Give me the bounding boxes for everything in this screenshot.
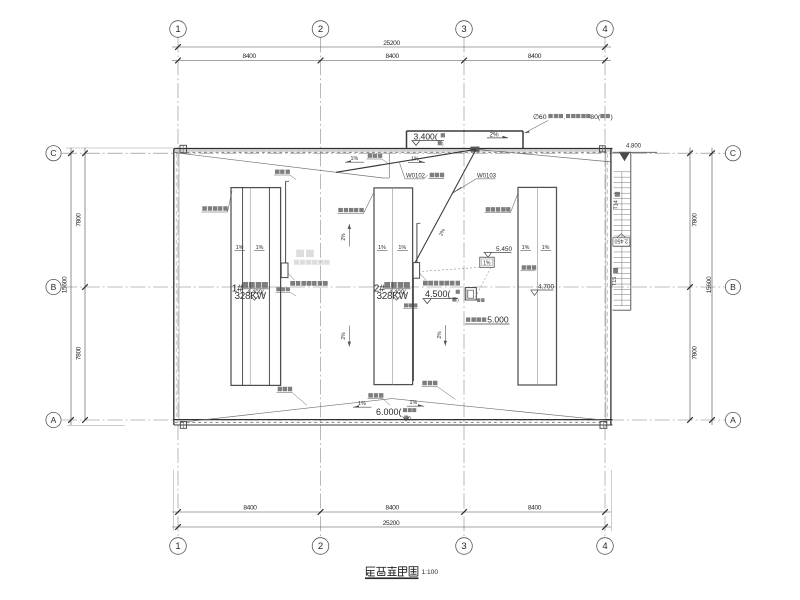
left wall bbox=[173, 149, 175, 425]
leader cabinet 1 bbox=[288, 273, 295, 280]
heat pump foundation strip 3 outline bbox=[518, 187, 557, 385]
svg-text:A: A bbox=[730, 415, 736, 425]
svg-text:C: C bbox=[730, 148, 736, 158]
top segment dimension line bbox=[172, 60, 611, 62]
svg-text:80(: 80( bbox=[590, 114, 601, 121]
grid bubble A left bbox=[46, 412, 61, 427]
riser pipe at strip 2 bbox=[416, 223, 418, 262]
tiny label main water line (strip2) bbox=[404, 303, 417, 307]
svg-text:1%: 1% bbox=[256, 245, 264, 251]
bottom ridge line right segment bbox=[392, 399, 609, 421]
right segment dimension line bbox=[689, 148, 691, 420]
parapet niche box (machine platform) bbox=[407, 130, 524, 132]
slope arrow 2% lower (between strips 2-3) bbox=[444, 325, 446, 346]
svg-text:B: B bbox=[51, 282, 57, 292]
svg-text:1%: 1% bbox=[410, 400, 418, 406]
label: control cabinet (strip2) bbox=[423, 281, 460, 286]
label: valley line bottom-right bbox=[423, 381, 438, 385]
svg-text:2%: 2% bbox=[437, 331, 443, 339]
svg-text:1%: 1% bbox=[378, 245, 386, 251]
grid bubble B right bbox=[725, 279, 740, 294]
svg-text:7800: 7800 bbox=[76, 346, 83, 360]
main water pipe below cabinet 2 bbox=[413, 278, 415, 381]
svg-text:3: 3 bbox=[461, 541, 466, 552]
main water pipe below cabinet 1 bbox=[280, 278, 282, 386]
grid bubble 3 bottom bbox=[456, 538, 473, 555]
svg-text:1%: 1% bbox=[236, 245, 244, 251]
bottom ridge line left segment bbox=[181, 399, 392, 423]
svg-text:7800: 7800 bbox=[76, 213, 83, 227]
svg-text:C: C bbox=[50, 148, 56, 158]
svg-text:6.000(: 6.000( bbox=[376, 407, 402, 417]
gray note: insulated accessible roof bbox=[294, 260, 329, 265]
svg-text:8400: 8400 bbox=[243, 53, 257, 60]
label pipe bottom level 5.000 bbox=[466, 317, 486, 322]
svg-text:8400: 8400 bbox=[243, 505, 257, 512]
parapet top wall band bbox=[174, 148, 613, 150]
label: valley line (top left) bbox=[275, 169, 290, 173]
grid bubble 1 bottom bbox=[170, 538, 187, 555]
svg-text:8400: 8400 bbox=[386, 505, 400, 512]
bottom segment dimension line bbox=[172, 511, 611, 513]
extension line bottom-left bbox=[67, 424, 125, 426]
grid line 2 (vertical axis 2) bbox=[320, 38, 322, 539]
leader cabinet 2 bbox=[420, 273, 426, 280]
svg-text:8400: 8400 bbox=[528, 53, 542, 60]
gray note: see detail 2 bbox=[297, 250, 314, 258]
svg-text:4: 4 bbox=[602, 541, 607, 552]
grid bubble C right bbox=[725, 146, 740, 161]
valley line from top-left corner bbox=[175, 153, 384, 178]
grid line 3 (vertical axis 3) bbox=[463, 38, 465, 539]
svg-text:328KW: 328KW bbox=[377, 291, 409, 302]
top total dimension line 25200 bbox=[172, 46, 611, 48]
slope arrow 2% upper (between strips 1-2) bbox=[348, 224, 350, 247]
grid line B (horizontal) bbox=[62, 286, 725, 288]
svg-text:1: 1 bbox=[175, 541, 180, 552]
svg-text:2%: 2% bbox=[490, 131, 500, 138]
grid line A (horizontal) bbox=[62, 419, 725, 421]
label concrete base (strip 2) with leader bbox=[339, 208, 364, 212]
strip 1 inner line b (light) bbox=[249, 188, 251, 386]
svg-text:1%: 1% bbox=[358, 401, 366, 407]
svg-text:): ) bbox=[611, 114, 613, 121]
svg-text:328KW: 328KW bbox=[235, 291, 267, 302]
stair level box 2.450 bbox=[613, 238, 630, 246]
svg-text:2: 2 bbox=[318, 24, 323, 35]
left segment dimension line bbox=[84, 148, 86, 420]
svg-text:A: A bbox=[51, 415, 57, 425]
dashed leader from 1% box to cabinet 2 bbox=[421, 267, 481, 271]
grid bubble B left bbox=[46, 279, 61, 294]
riser pipe at strip 1 bbox=[285, 181, 287, 263]
svg-text:1%: 1% bbox=[411, 157, 419, 163]
tick on W0103 line bbox=[453, 187, 462, 193]
label: valley line bottom-left bbox=[278, 387, 293, 391]
drawing title: roof plan bbox=[366, 567, 375, 576]
grid bubble 4 bottom bbox=[597, 538, 614, 555]
strip 3 label: water dividing line bbox=[522, 265, 537, 269]
extension line top-left bbox=[66, 147, 174, 149]
bottom total dimension line 25200 bbox=[172, 526, 611, 528]
stair center stringer bbox=[621, 172, 623, 238]
label concrete base (strip 1) with leader bbox=[203, 206, 228, 210]
annotation: 60mm outlet leader bbox=[525, 121, 549, 134]
heat pump foundation strip 2 outline bbox=[374, 188, 413, 385]
grid bubble 3 top bbox=[456, 21, 473, 38]
svg-text:1%: 1% bbox=[483, 261, 491, 267]
svg-text:25200: 25200 bbox=[383, 40, 400, 47]
main water line W0102 (dark slope line) bbox=[336, 149, 476, 172]
grid bubble 4 top bbox=[597, 21, 614, 38]
svg-text:,: , bbox=[564, 115, 565, 120]
grid line C (horizontal) bbox=[62, 152, 725, 154]
tiny drain text bbox=[477, 299, 485, 303]
riser line at x=389 bbox=[388, 153, 390, 178]
extension line bottom-left corner bbox=[173, 470, 175, 531]
svg-text:∅60: ∅60 bbox=[533, 114, 547, 121]
svg-text:T14: T14 bbox=[614, 200, 620, 209]
bottom parapet wall band bbox=[174, 419, 613, 421]
strip 3 inner line (light) bbox=[536, 187, 538, 385]
valley line to right wall bbox=[476, 149, 612, 162]
svg-text:T15: T15 bbox=[612, 277, 618, 286]
svg-text:3: 3 bbox=[461, 24, 466, 35]
svg-text:1%: 1% bbox=[351, 156, 359, 162]
svg-text:8400: 8400 bbox=[386, 53, 400, 60]
svg-text:2%: 2% bbox=[341, 332, 347, 340]
grid bubble C left bbox=[46, 146, 61, 161]
roof drain top-left corner bbox=[180, 145, 187, 153]
svg-text:1%: 1% bbox=[522, 245, 530, 251]
left total dimension line 15600 bbox=[70, 148, 72, 425]
steep pipe line W0103 bbox=[415, 150, 476, 263]
svg-text:8400: 8400 bbox=[528, 505, 542, 512]
grid bubble 2 top bbox=[312, 21, 329, 38]
svg-text:2: 2 bbox=[318, 541, 323, 552]
grid bubble 2 bottom bbox=[312, 538, 329, 555]
label: dividing line (top) bbox=[368, 153, 383, 157]
grid line 1 (vertical axis 1) bbox=[177, 38, 179, 539]
svg-text:1: 1 bbox=[175, 24, 180, 35]
stair top edge line bbox=[613, 151, 658, 153]
stair entry arrow (filled) bbox=[620, 153, 630, 161]
strip 2 inner line (light) bbox=[391, 188, 393, 385]
control cabinet strip 2 bbox=[413, 263, 419, 279]
svg-text:1%: 1% bbox=[398, 245, 406, 251]
roof drain bottom-right corner bbox=[600, 422, 607, 429]
grid bubble A right bbox=[725, 412, 740, 427]
svg-text:1%: 1% bbox=[542, 245, 550, 251]
control cabinet strip 1 bbox=[281, 263, 288, 278]
svg-text:1:100: 1:100 bbox=[422, 569, 439, 576]
roof drain W0102 on top parapet bbox=[471, 147, 480, 152]
label concrete base (strip 3) with leader bbox=[486, 207, 511, 211]
right wall bbox=[610, 149, 612, 425]
heat pump foundation strip 1 outline bbox=[231, 188, 281, 386]
label: control cabinet (strip1) bbox=[291, 281, 328, 286]
svg-text:7800: 7800 bbox=[692, 346, 699, 360]
grid line 4 (vertical axis 4) bbox=[604, 38, 606, 539]
stair treads lower flight bbox=[613, 246, 630, 248]
tiny label main water line (strip1) bbox=[277, 287, 290, 291]
stair treads upper flight bbox=[613, 171, 630, 173]
svg-text:4: 4 bbox=[602, 24, 607, 35]
roof drain bottom-left corner bbox=[180, 422, 186, 429]
extension line bottom-right corner bbox=[611, 470, 613, 531]
svg-text:5.000: 5.000 bbox=[487, 315, 509, 325]
slope detail box 1% bbox=[480, 257, 494, 267]
strip 1 inner line a bbox=[242, 188, 244, 386]
grid bubble 1 top bbox=[170, 21, 187, 38]
svg-text:15600: 15600 bbox=[706, 276, 713, 293]
strip 1 inner line c bbox=[268, 188, 270, 386]
svg-text:2%: 2% bbox=[341, 233, 347, 241]
svg-text:25200: 25200 bbox=[383, 520, 400, 527]
svg-text:4.500(: 4.500( bbox=[425, 289, 451, 299]
roof drain top-right corner bbox=[600, 146, 606, 152]
stair T14/T15 outer box bbox=[630, 152, 632, 310]
svg-text:B: B bbox=[730, 282, 736, 292]
label: dividing line bottom-center bbox=[369, 393, 384, 397]
roof drain symbol near grid 3/B bbox=[465, 288, 476, 300]
slope arrow 2% lower (between strips 1-2) bbox=[348, 326, 350, 347]
svg-text:7800: 7800 bbox=[692, 213, 699, 227]
svg-text:2.450: 2.450 bbox=[615, 237, 629, 243]
right total dimension line 15600 bbox=[711, 148, 713, 425]
svg-text:4.800: 4.800 bbox=[626, 144, 642, 150]
dashed leader from 1% box to drain symbol bbox=[476, 267, 492, 297]
svg-text:15600: 15600 bbox=[62, 276, 69, 293]
